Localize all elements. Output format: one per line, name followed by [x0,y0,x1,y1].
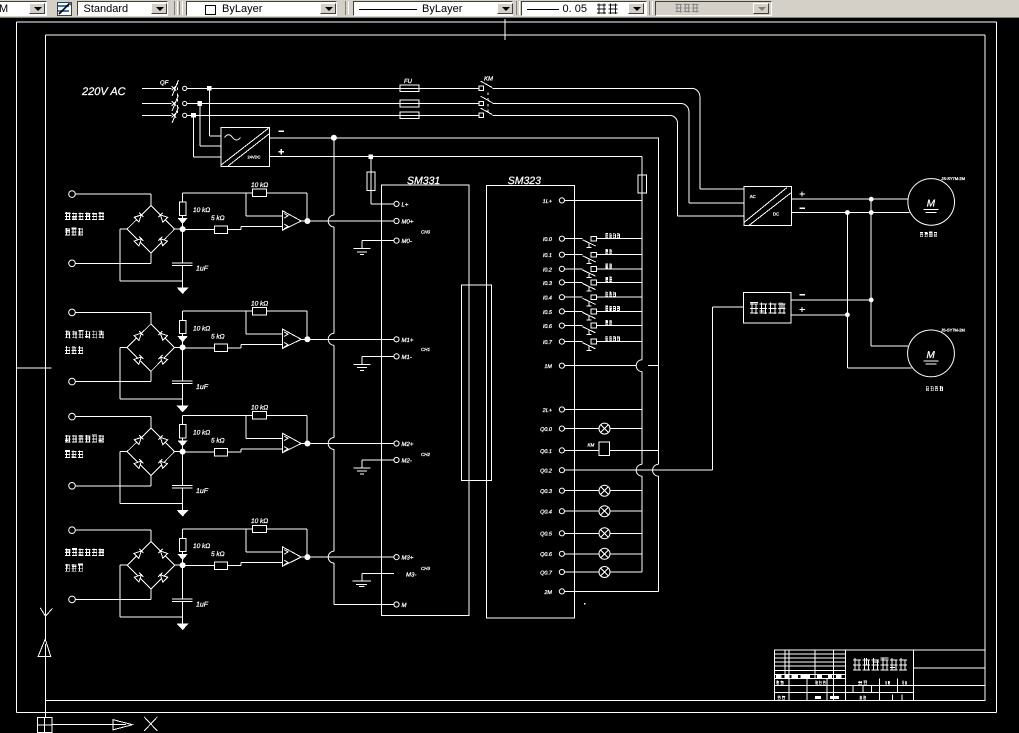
svg-text:QF: QF [160,80,169,87]
svg-text:M2+: M2+ [402,441,414,448]
svg-text:I0.2: I0.2 [543,267,552,273]
svg-text:5 kΩ: 5 kΩ [211,333,225,340]
svg-text:Q0.5: Q0.5 [540,532,553,538]
svg-text:220V AC: 220V AC [81,86,126,98]
svg-text:SM323: SM323 [508,175,541,187]
svg-text:M0+: M0+ [402,219,414,226]
svg-text:M2-: M2- [402,458,412,465]
svg-text:M3-: M3- [406,571,416,578]
svg-text:DC: DC [773,212,779,217]
svg-text:M: M [927,350,936,361]
svg-text:10 kΩ: 10 kΩ [251,518,268,525]
svg-text:10 kΩ: 10 kΩ [251,300,268,307]
svg-text:M0-: M0- [402,238,412,245]
svg-text:I0.5: I0.5 [543,310,553,316]
svg-text:1M: 1M [544,364,552,370]
svg-text:1uF: 1uF [196,602,209,609]
svg-text:10 kΩ: 10 kΩ [193,325,210,332]
svg-text:24VDC: 24VDC [248,155,261,160]
svg-text:10 kΩ: 10 kΩ [251,182,268,189]
svg-text:Q0.4: Q0.4 [540,510,552,516]
svg-text:Q0.3: Q0.3 [540,489,553,495]
svg-text:M1-: M1- [402,354,412,361]
svg-text:Q0.1: Q0.1 [540,449,552,455]
svg-text:10 kΩ: 10 kΩ [193,207,210,214]
svg-text:L+: L+ [402,202,409,209]
svg-text:M1+: M1+ [402,337,414,344]
svg-text:I0.1: I0.1 [543,253,552,259]
svg-text:2M: 2M [543,590,552,596]
svg-text:KM: KM [588,443,595,448]
svg-text:CH1: CH1 [421,347,430,352]
svg-text:JS-SY7M-2M: JS-SY7M-2M [941,328,965,333]
svg-text:2L+: 2L+ [542,408,553,414]
svg-text:10 kΩ: 10 kΩ [193,430,210,437]
svg-text:Q0.2: Q0.2 [540,469,552,475]
svg-text:I0.3: I0.3 [543,281,553,287]
svg-text:CH3: CH3 [421,566,430,571]
svg-text:M: M [402,602,407,609]
svg-text:Q0.7: Q0.7 [540,570,553,576]
svg-text:5 kΩ: 5 kΩ [211,215,225,222]
svg-text:JS-SY7M-2M: JS-SY7M-2M [941,176,965,181]
svg-text:1L+: 1L+ [543,199,553,205]
svg-text:1uF: 1uF [196,384,209,391]
svg-text:M: M [927,198,936,209]
svg-text:M3+: M3+ [402,555,414,562]
svg-text:10 kΩ: 10 kΩ [251,405,268,412]
svg-text:10 kΩ: 10 kΩ [193,543,210,550]
svg-text:1uF: 1uF [196,488,209,495]
svg-text:Q0.6: Q0.6 [540,552,553,558]
svg-text:I0.6: I0.6 [543,324,553,330]
svg-text:CH2: CH2 [421,452,430,457]
svg-text:FU: FU [404,78,413,85]
svg-text:5 kΩ: 5 kΩ [211,551,225,558]
svg-text:CH0: CH0 [421,230,430,235]
svg-text:Q0.0: Q0.0 [540,427,553,433]
svg-text:I0.4: I0.4 [543,296,552,302]
svg-text:AC: AC [750,194,756,199]
svg-text:1uF: 1uF [196,266,209,273]
svg-text:I0.0: I0.0 [543,237,553,243]
svg-text:KM: KM [484,76,493,83]
svg-text:I0.7: I0.7 [543,340,553,346]
svg-text:5 kΩ: 5 kΩ [211,438,225,445]
svg-text:SM331: SM331 [407,175,440,187]
